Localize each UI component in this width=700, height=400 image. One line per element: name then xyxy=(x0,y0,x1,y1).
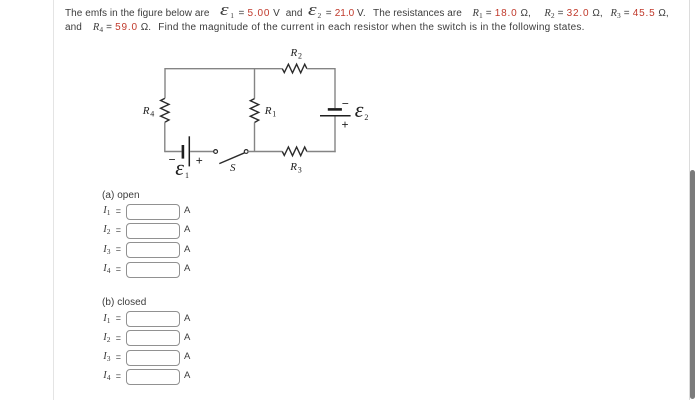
wire middle vertical lower xyxy=(254,123,256,152)
svg-text:R: R xyxy=(264,105,272,117)
(a) open heading xyxy=(102,190,140,201)
svg-text:+: + xyxy=(342,118,349,132)
svg-text:+: + xyxy=(196,154,203,168)
(a) row 2 xyxy=(103,224,110,236)
battery E2 short plate (negative) xyxy=(328,108,342,111)
(b) row 2 xyxy=(103,332,110,344)
svg-text:R: R xyxy=(290,47,298,59)
wire bottom-left segment xyxy=(165,151,182,153)
wire top-left segment xyxy=(165,68,282,70)
resistor R3 xyxy=(282,147,307,156)
svg-text:R: R xyxy=(289,161,297,173)
svg-text:2: 2 xyxy=(298,52,302,61)
(b) closed heading xyxy=(102,297,146,308)
switch blade xyxy=(219,153,244,164)
wire top-right segment xyxy=(307,68,335,70)
switch contact circle left xyxy=(214,150,218,154)
svg-text:S: S xyxy=(230,162,236,174)
resistor R4 xyxy=(161,98,169,122)
problem text line 2 xyxy=(65,22,585,34)
(a) row 4 xyxy=(103,263,110,275)
svg-text:1: 1 xyxy=(185,171,189,180)
svg-text:R: R xyxy=(142,105,150,117)
scrollbar thumb xyxy=(690,170,696,399)
problem text line 1 xyxy=(65,6,669,20)
svg-text:−: − xyxy=(342,97,349,111)
switch contact circle right xyxy=(244,150,248,154)
svg-text:1: 1 xyxy=(272,110,276,119)
wire right vertical upper xyxy=(334,68,336,108)
wire battery to switch xyxy=(190,151,214,153)
resistor R1 xyxy=(250,99,258,123)
wire left vertical lower xyxy=(164,122,166,152)
svg-text:2: 2 xyxy=(364,113,368,122)
svg-text:ε: ε xyxy=(175,155,184,180)
wire R3 to right corner xyxy=(307,151,336,153)
svg-text:3: 3 xyxy=(298,165,302,174)
(b) row 3 xyxy=(103,351,110,363)
(b) row 1 xyxy=(103,313,110,325)
left page rule xyxy=(53,0,54,400)
svg-text:4: 4 xyxy=(150,110,154,119)
wire left vertical upper xyxy=(164,68,166,98)
(a) row 1 xyxy=(103,205,110,217)
battery E1 long plate (positive) xyxy=(188,136,190,166)
battery E1 short plate (negative) xyxy=(182,145,185,159)
right page rule xyxy=(689,0,690,400)
wire right vertical lower xyxy=(334,117,336,153)
wire switch to R3 xyxy=(248,151,282,153)
(a) row 3 xyxy=(103,244,110,256)
svg-text:ε: ε xyxy=(355,97,364,122)
battery E2 long plate (positive) xyxy=(320,115,351,117)
(b) row 4 xyxy=(103,370,110,382)
resistor R2 xyxy=(282,64,307,73)
wire middle vertical upper xyxy=(254,69,256,99)
